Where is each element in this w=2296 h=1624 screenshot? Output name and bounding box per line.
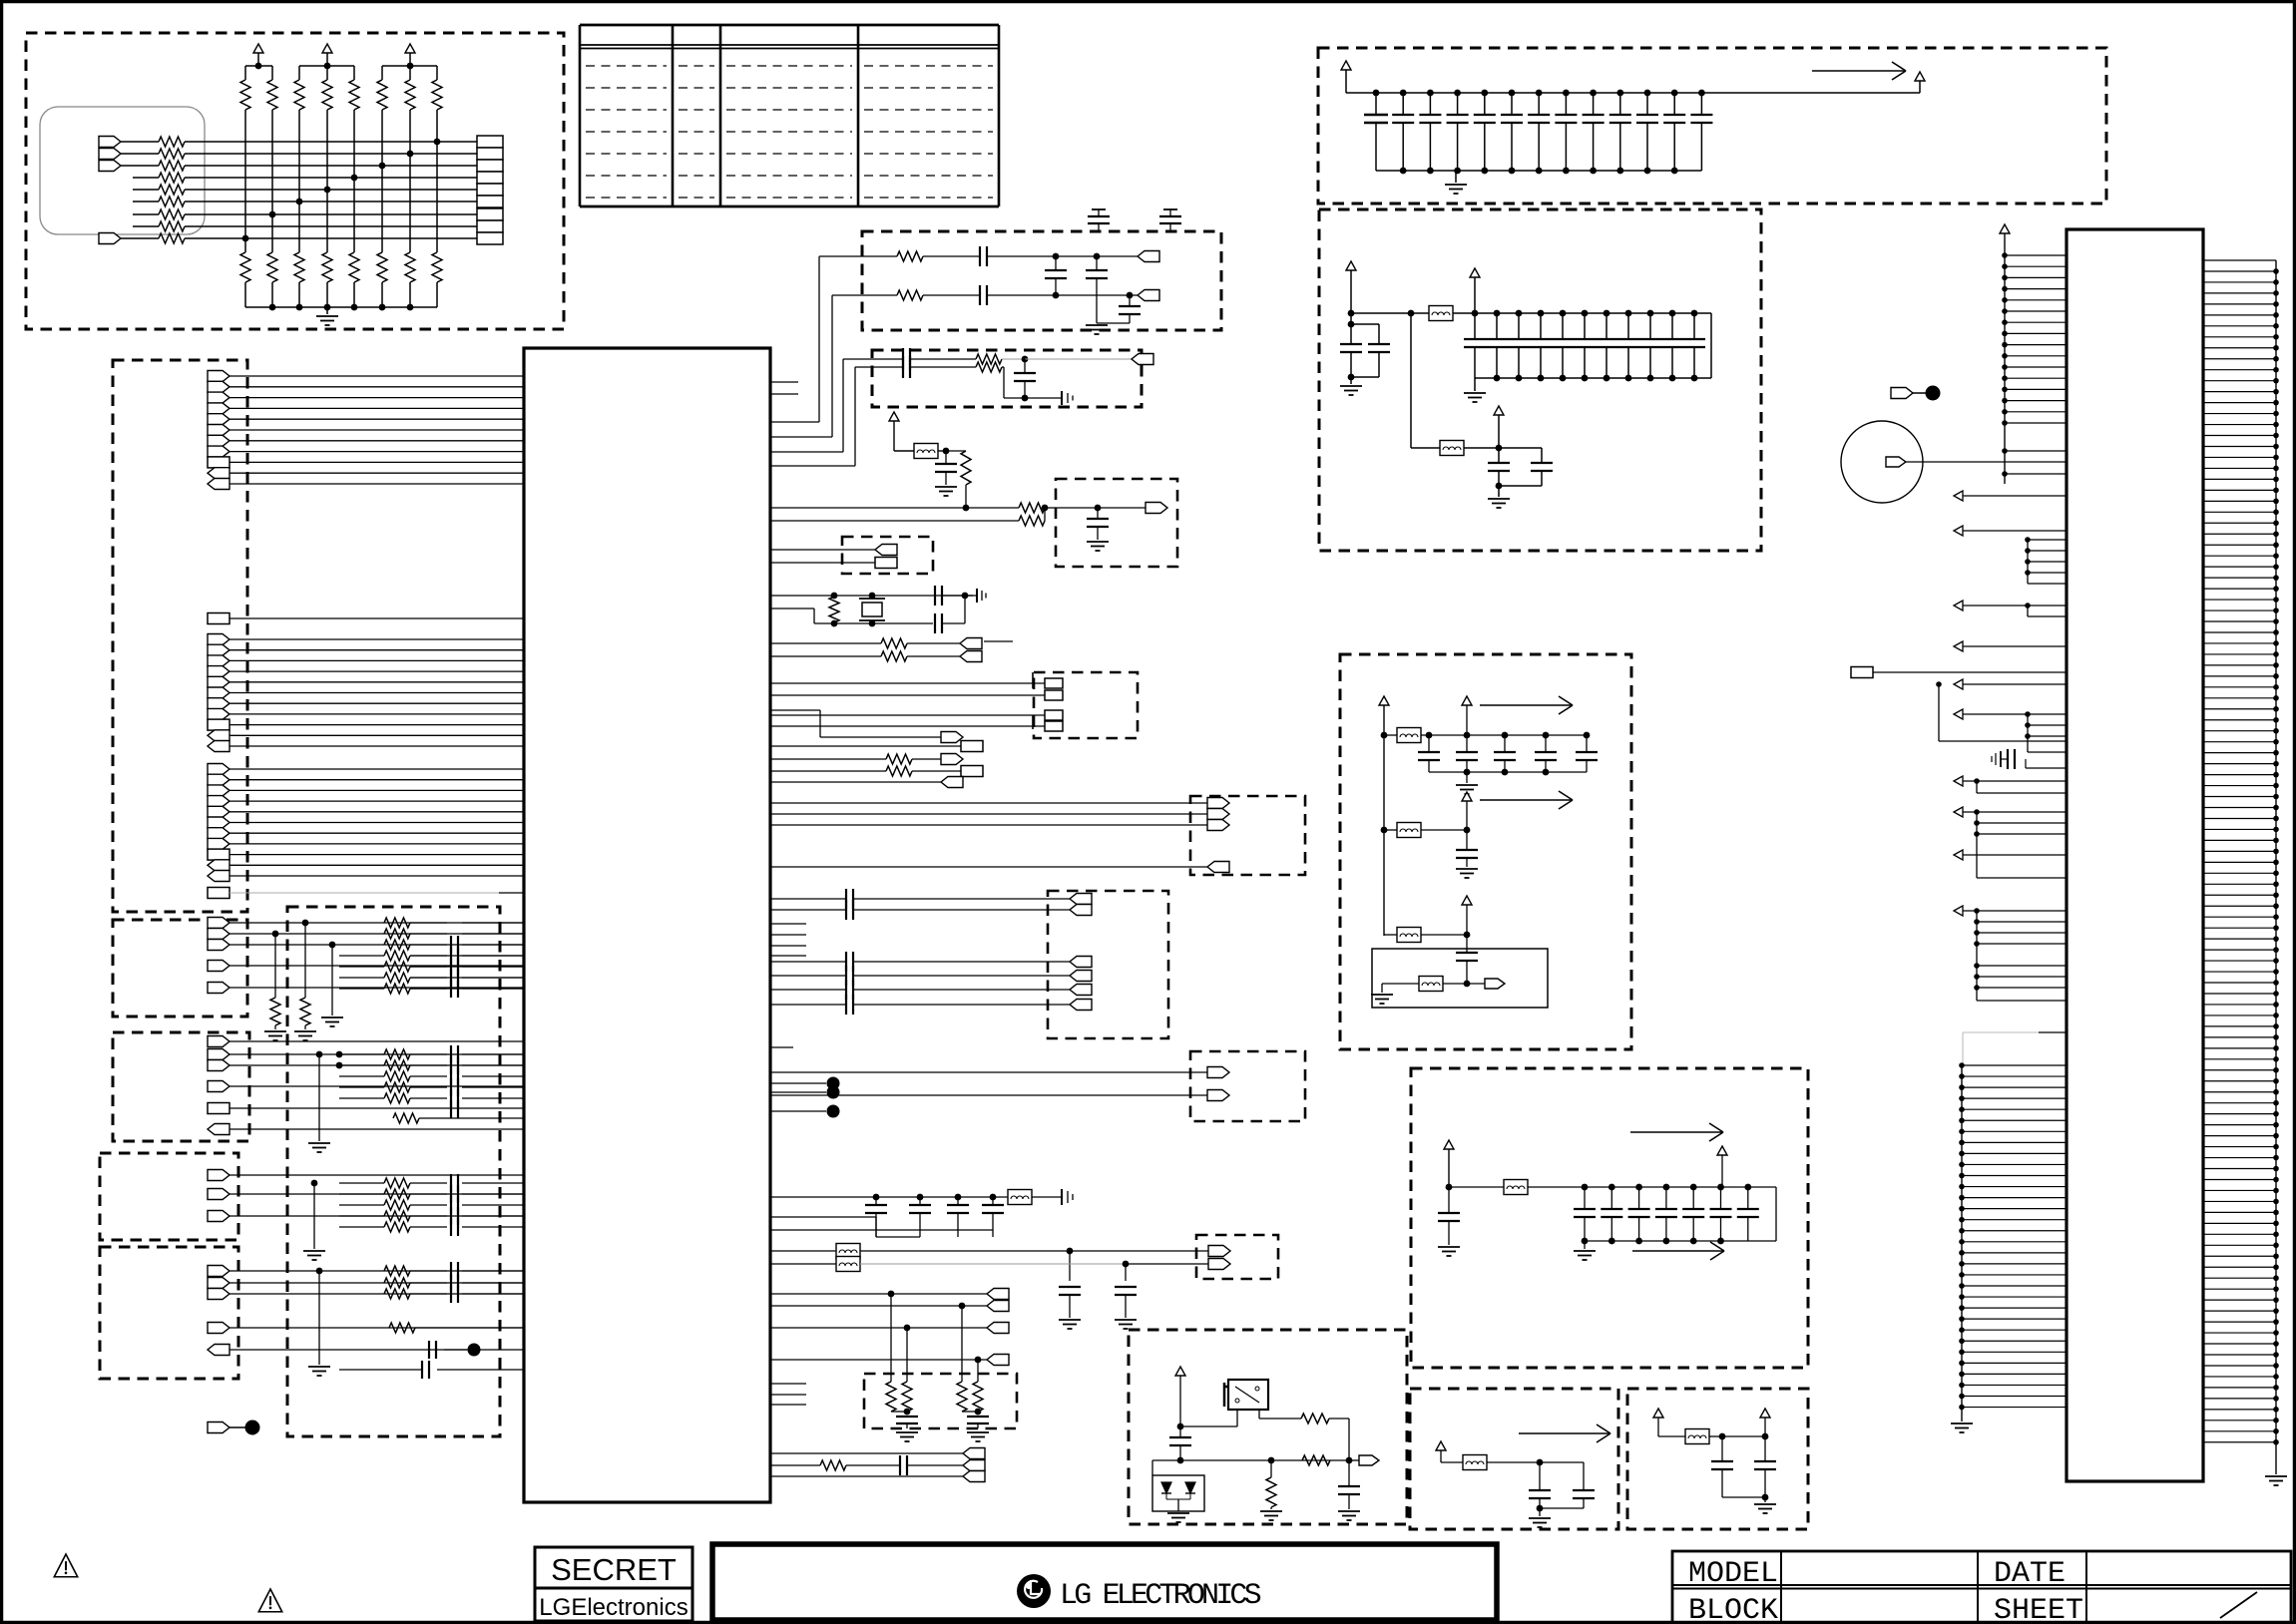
svg-text:DATE: DATE (1994, 1557, 2066, 1591)
svg-text:MODEL: MODEL (1688, 1557, 1778, 1591)
svg-text:SECRET: SECRET (551, 1552, 677, 1587)
svg-text:SHEET: SHEET (1994, 1594, 2083, 1624)
svg-text:LGElectronics: LGElectronics (539, 1594, 688, 1621)
svg-text:LG ELECTRONICS: LG ELECTRONICS (1060, 1579, 1261, 1613)
svg-text:BLOCK: BLOCK (1688, 1594, 1778, 1624)
